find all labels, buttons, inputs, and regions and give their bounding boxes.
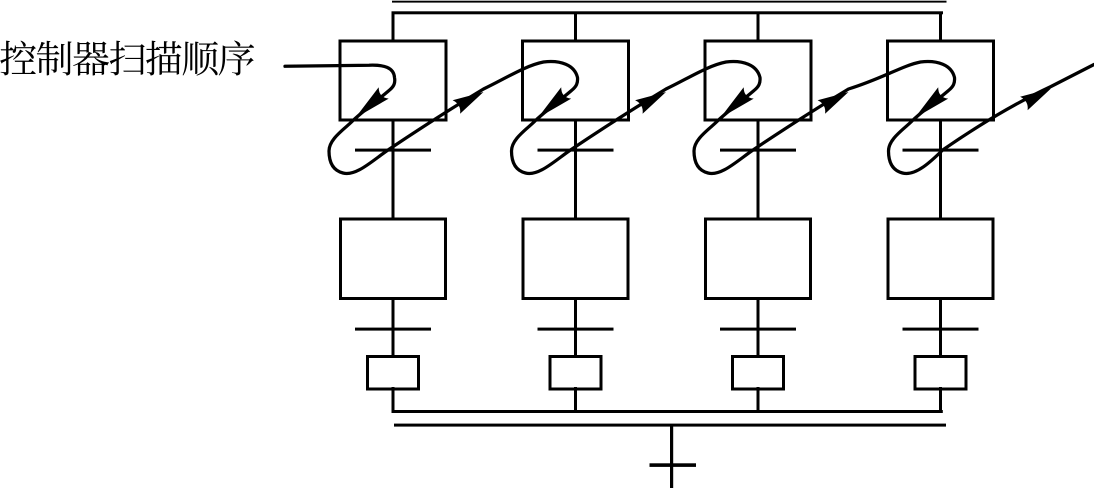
wire S2a to S2b [574,119,577,219]
label text char 扫 [110,41,145,76]
wire bottom rail to supply symbol [670,426,673,488]
step box S3a [705,41,811,120]
scan curve arrowhead into step S2a [538,87,572,118]
transition bar T3b [720,328,796,331]
scan curve arrowhead into step S1a [355,87,389,118]
scan curve arrowhead into step S3a [720,87,754,118]
wire S2b to S2c [574,298,577,355]
power supply crossbar [650,463,697,467]
step box S1a [340,41,446,120]
wire rail to step box S4a column 4 [939,13,942,41]
label text char 序 [219,41,254,76]
step box S2a [523,41,629,120]
step box S3c [733,357,784,390]
wire S3c to bottom rail [757,387,760,413]
bottom rail outer line [394,424,946,427]
scan order curve with leader from label [285,62,1094,174]
label text char 控 [0,41,36,76]
transition bar T1a [355,149,431,152]
step box S2c [550,357,601,390]
bottom return rail bus wire [392,410,943,413]
step box S1c [368,357,419,390]
step box S4b [888,219,993,299]
wire S4b to S4c [939,298,942,355]
label text 控制器扫描顺序 [0,41,254,76]
step box S3b [706,219,811,299]
wire S4a to S4b [939,119,942,219]
wire rail to step box S1a column 1 [392,13,395,41]
transition bar T3a [720,149,796,152]
step box S4c [915,357,966,390]
label text char 顺 [183,41,218,75]
wire S3b to S3c [757,298,760,355]
label text char 描 [146,41,181,76]
transition bar T4a [903,149,979,152]
label text char 制 [37,41,72,76]
transition bar T4b [903,328,979,331]
wire S3a to S3b [757,119,760,219]
scan curve arrowhead after step S1a [453,92,484,114]
wire S4c to bottom rail [939,387,942,413]
wire S2c to bottom rail [574,387,577,413]
scan curve arrowhead after step S2a [635,92,666,114]
wire S1b to S1c [392,298,395,355]
label text char 器 [73,41,109,75]
top supply rail outer line [392,1,947,3]
step box S1b [341,219,446,299]
transition bar T2b [538,328,614,331]
step box S2b [523,219,628,299]
scan curve arrowhead into step S4a [915,87,949,118]
top supply rail bus wire [392,11,944,14]
wire S1c to bottom rail [392,387,395,413]
transition bar T1b [355,328,431,331]
scan curve arrowhead after step S3a [818,92,849,114]
scan curve arrowhead after step S4a [1020,89,1051,111]
wire S1a to S1b [392,119,395,219]
transition bar T2a [538,149,614,152]
wire rail to step box S2a column 2 [574,13,577,41]
wire rail to step box S3a column 3 [757,13,760,41]
step box S4a [888,41,994,120]
